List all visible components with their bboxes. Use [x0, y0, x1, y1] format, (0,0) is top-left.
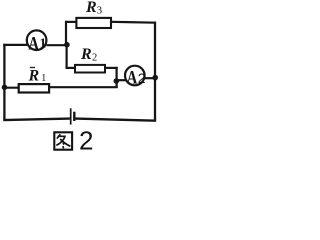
wire: left rail vertical — [3, 44, 5, 121]
svg-text:R: R — [28, 67, 40, 84]
resistor R2 — [75, 46, 105, 73]
resistor R1 — [19, 67, 49, 92]
wire: A2 right to right rail — [144, 77, 156, 79]
wire: R3 right lead to right rail — [110, 21, 156, 24]
wire: junction down to R2 branch — [65, 44, 67, 69]
node: junction after A1 — [64, 42, 70, 48]
battery — [71, 108, 75, 124]
ammeter A2 — [125, 66, 146, 88]
wire: right rail vertical — [154, 22, 156, 121]
wire: junction up to R3 branch — [65, 21, 67, 45]
svg-text:1: 1 — [41, 73, 46, 84]
ammeter A1 — [27, 30, 47, 53]
svg-text:R: R — [80, 46, 92, 63]
wire: A1 left horizontal — [3, 44, 27, 46]
svg-text:1: 1 — [40, 36, 47, 51]
wire: battery to bottom right — [76, 119, 157, 121]
wire: R2 right lead — [104, 67, 118, 69]
wire: vertical joining R2 and R1 leads — [115, 67, 117, 88]
node: junction on left rail — [2, 85, 8, 91]
caption: 图 2 — [54, 126, 93, 156]
node: junction before A2 — [114, 78, 120, 84]
wire: R1 right lead to vertical — [48, 86, 118, 88]
svg-text:2: 2 — [92, 52, 97, 63]
wire: bottom left to battery — [3, 119, 70, 121]
svg-text:A: A — [127, 67, 138, 88]
wire: node to A2 — [116, 79, 126, 81]
svg-text:3: 3 — [97, 5, 103, 17]
svg-text:R: R — [85, 0, 97, 16]
wire: R2 left lead — [66, 67, 76, 69]
wire: R3 left lead — [65, 21, 77, 23]
node: junction on right rail — [152, 75, 158, 81]
wire: R1 left lead — [3, 87, 20, 89]
svg-text:A: A — [28, 32, 39, 53]
svg-text:2: 2 — [79, 126, 93, 153]
wire: A1 right horizontal to node — [46, 44, 67, 46]
resistor R3 — [76, 0, 111, 28]
